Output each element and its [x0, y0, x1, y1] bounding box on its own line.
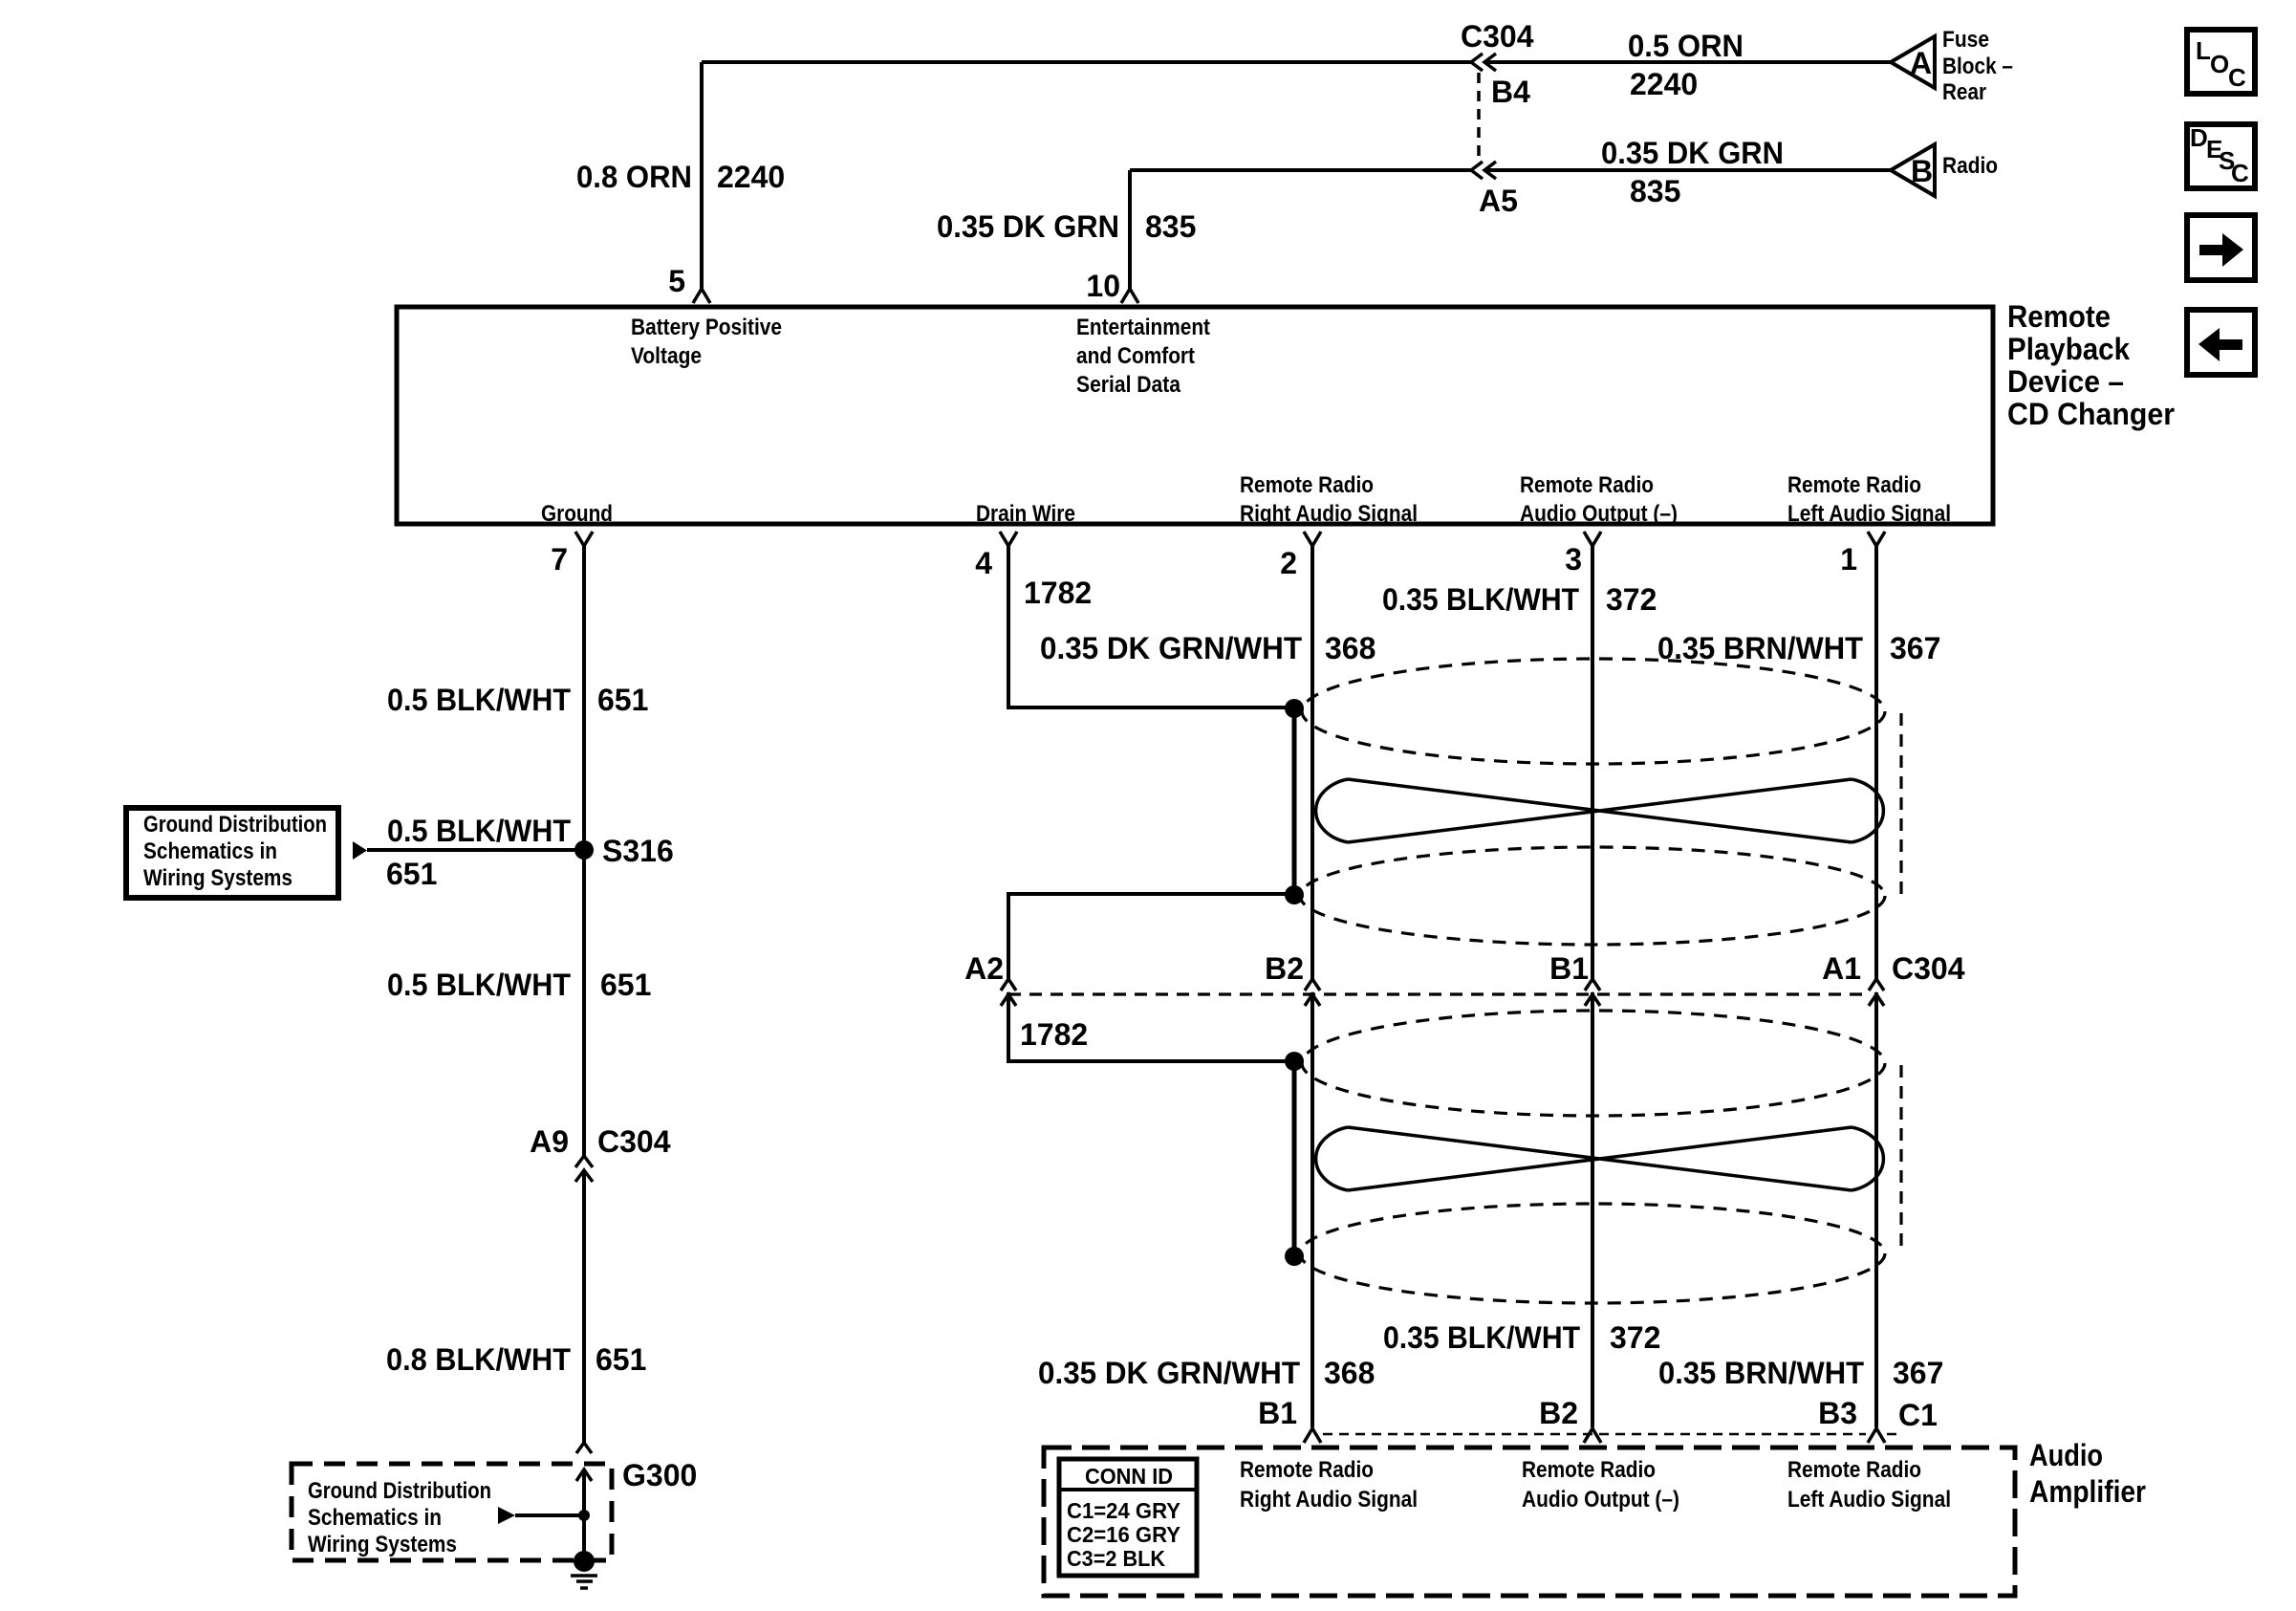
- shield 2 top dashed ellipse: [1302, 1011, 1885, 1116]
- svg-text:L: L: [2196, 36, 2211, 65]
- connector C304 cavity A9 chevrons: [575, 1156, 593, 1182]
- amp pin B2 fork: [1584, 1428, 1601, 1443]
- svg-text:C304: C304: [1461, 19, 1534, 54]
- wire 0.35 DK GRN 835 horizontal to radio: [1130, 168, 1471, 172]
- svg-text:Entertainment: Entertainment: [1076, 315, 1210, 340]
- pin 4 fork out of box: [1000, 532, 1017, 546]
- svg-text:C2=16 GRY: C2=16 GRY: [1067, 1522, 1180, 1547]
- svg-text:0.35 BLK/WHT: 0.35 BLK/WHT: [1383, 1320, 1580, 1355]
- svg-text:10: 10: [1086, 269, 1120, 303]
- svg-text:Drain Wire: Drain Wire: [976, 501, 1075, 527]
- SECTION: top wiring: [576, 19, 2013, 303]
- connector C304 dashed boundary line (top): [1477, 73, 1481, 162]
- svg-text:Block –: Block –: [1942, 54, 2013, 79]
- arrow inside G300 box: [498, 1507, 515, 1524]
- svg-text:C304: C304: [597, 1124, 671, 1159]
- reference box Ground Distribution Schematics (solid): [126, 808, 338, 898]
- svg-text:B3: B3: [1818, 1396, 1857, 1430]
- SECTION: ground branch: [126, 546, 697, 1588]
- svg-text:0.5 BLK/WHT: 0.5 BLK/WHT: [387, 683, 571, 717]
- SECTION: cd changer box: [397, 299, 2175, 580]
- svg-text:Rear: Rear: [1942, 79, 1986, 105]
- svg-text:C: C: [2231, 159, 2249, 187]
- splice S316 junction dot: [574, 840, 594, 860]
- legend box DESC: [2187, 124, 2255, 188]
- legend icon left-arrow: [2199, 328, 2242, 361]
- triangle connector B (radio): [1891, 144, 1935, 196]
- svg-text:0.35 DK GRN: 0.35 DK GRN: [1601, 136, 1784, 170]
- wire branch to S316: [367, 848, 584, 852]
- wire 0.35 DK GRN from connector to radio triangle: [1484, 168, 1891, 172]
- svg-text:Amplifier: Amplifier: [2029, 1474, 2146, 1509]
- svg-text:1782: 1782: [1020, 1017, 1088, 1052]
- wire 0.35 DK GRN 835 vertical drop to pin 10: [1128, 170, 1132, 289]
- svg-text:0.5 BLK/WHT: 0.5 BLK/WHT: [387, 814, 571, 848]
- svg-text:Playback: Playback: [2007, 332, 2130, 366]
- wire 372 audio output upper segment (pin 3): [1591, 546, 1594, 979]
- svg-text:0.35 DK GRN: 0.35 DK GRN: [937, 209, 1119, 244]
- wire 368 right audio upper segment (pin 2): [1310, 546, 1314, 979]
- svg-text:O: O: [2210, 50, 2229, 78]
- svg-text:A2: A2: [964, 951, 1004, 986]
- svg-text:0.35 DK GRN/WHT: 0.35 DK GRN/WHT: [1040, 631, 1302, 665]
- wire ground lower segment to G300: [582, 1170, 586, 1443]
- svg-text:Schematics in: Schematics in: [308, 1505, 442, 1531]
- shield 2 twisted pair bowtie: [1316, 1127, 1884, 1190]
- junction dot on ground stem: [578, 1510, 590, 1521]
- pin 10 fork into box: [1121, 289, 1138, 303]
- svg-text:1: 1: [1840, 542, 1857, 577]
- drain wire pin 4 vertical: [1008, 546, 1294, 708]
- triangle connector A (fuse block): [1891, 36, 1935, 88]
- svg-text:S316: S316: [602, 834, 674, 868]
- svg-text:Ground Distribution: Ground Distribution: [143, 812, 327, 838]
- wire 367 left audio upper segment (pin 1): [1874, 546, 1878, 979]
- svg-text:Wiring Systems: Wiring Systems: [143, 865, 292, 891]
- wire inside G300: [582, 1469, 586, 1558]
- svg-text:3: 3: [1565, 542, 1582, 577]
- G300 box (dashed): [292, 1464, 612, 1560]
- shield 1 top dashed ellipse: [1302, 659, 1885, 764]
- svg-text:835: 835: [1145, 209, 1196, 244]
- drain wire below A2: [1008, 992, 1294, 1061]
- svg-text:651: 651: [600, 968, 651, 1002]
- shield 1 drain dot lower: [1285, 885, 1304, 904]
- connector C304 cavity A5 chevrons: [1471, 162, 1496, 179]
- pin 7 fork out of box: [575, 532, 593, 546]
- connector A2 chevrons: [1001, 979, 1016, 1006]
- svg-text:G300: G300: [622, 1458, 697, 1492]
- arrow from reference box: [353, 841, 367, 860]
- svg-text:7: 7: [551, 542, 568, 577]
- svg-text:Left Audio Signal: Left Audio Signal: [1787, 1487, 1951, 1513]
- svg-text:368: 368: [1325, 631, 1375, 665]
- shield 2 drain bridge: [1292, 1061, 1297, 1256]
- svg-text:372: 372: [1610, 1320, 1660, 1355]
- svg-text:0.5 BLK/WHT: 0.5 BLK/WHT: [387, 968, 571, 1002]
- svg-text:5: 5: [668, 264, 685, 298]
- drain wire return to A2: [1008, 894, 1294, 979]
- ground terminal dot G300: [574, 1551, 595, 1572]
- pin 2 fork out of box: [1304, 532, 1321, 546]
- earth ground symbol: [571, 1576, 597, 1588]
- svg-text:CONN ID: CONN ID: [1085, 1464, 1173, 1489]
- svg-text:0.8 ORN: 0.8 ORN: [576, 160, 692, 194]
- connector C304 cavity B4 chevrons: [1471, 54, 1496, 71]
- svg-text:A: A: [1910, 46, 1932, 80]
- svg-text:B2: B2: [1265, 951, 1304, 986]
- svg-text:A9: A9: [530, 1124, 569, 1159]
- svg-text:Right Audio Signal: Right Audio Signal: [1240, 501, 1418, 527]
- svg-text:C304: C304: [1892, 951, 1965, 986]
- svg-text:367: 367: [1890, 631, 1940, 665]
- svg-text:Remote Radio: Remote Radio: [1522, 1457, 1656, 1483]
- shield 2 drain dot lower: [1285, 1247, 1304, 1266]
- wire 0.8 ORN 2240 horizontal from pin 5 to connector C304 B4: [702, 60, 1471, 64]
- shield 2 right dashed side: [1899, 1065, 1902, 1251]
- svg-text:2240: 2240: [717, 160, 785, 194]
- svg-text:0.35 BRN/WHT: 0.35 BRN/WHT: [1658, 1356, 1864, 1390]
- svg-text:Schematics in: Schematics in: [143, 838, 277, 864]
- svg-text:0.35 BRN/WHT: 0.35 BRN/WHT: [1657, 631, 1863, 665]
- svg-text:2240: 2240: [1630, 67, 1698, 101]
- connector B1 chevrons: [1585, 979, 1600, 1006]
- legend icon right-arrow: [2199, 233, 2243, 267]
- svg-text:Left Audio Signal: Left Audio Signal: [1787, 501, 1951, 527]
- shield 1 bottom dashed ellipse: [1300, 847, 1885, 945]
- svg-text:Remote Radio: Remote Radio: [1240, 1457, 1374, 1483]
- svg-text:C3=2 BLK: C3=2 BLK: [1067, 1546, 1165, 1571]
- svg-text:Remote: Remote: [2007, 299, 2111, 334]
- svg-text:Remote Radio: Remote Radio: [1787, 1457, 1921, 1483]
- wire 0.5 ORN 2240 from connector C304 to fuse block triangle: [1484, 60, 1891, 64]
- G300 break chevron above box: [576, 1443, 592, 1453]
- svg-text:Ground: Ground: [541, 501, 613, 527]
- svg-text:Ground Distribution: Ground Distribution: [308, 1478, 491, 1504]
- wire ground upper segment pin7 to S316: [582, 546, 586, 1156]
- svg-text:C1: C1: [1898, 1398, 1938, 1432]
- connector A1 chevrons: [1869, 979, 1884, 1006]
- svg-text:Radio: Radio: [1942, 153, 1998, 179]
- svg-text:B1: B1: [1258, 1396, 1297, 1430]
- svg-text:1782: 1782: [1024, 576, 1092, 610]
- svg-text:Audio Output (–): Audio Output (–): [1520, 501, 1678, 527]
- svg-text:0.8 BLK/WHT: 0.8 BLK/WHT: [386, 1342, 571, 1377]
- shield 1 drain dot upper: [1285, 699, 1304, 718]
- shield 1 right dashed side: [1899, 713, 1902, 894]
- legend box left-arrow: [2187, 310, 2255, 375]
- wire arrow to ground stem: [515, 1513, 584, 1517]
- svg-text:Wiring Systems: Wiring Systems: [308, 1532, 457, 1557]
- svg-text:Battery Positive: Battery Positive: [631, 315, 782, 340]
- SECTION: shields: [964, 546, 1965, 1427]
- shield 1 drain bridge: [1292, 708, 1297, 895]
- svg-text:Fuse: Fuse: [1942, 27, 1989, 53]
- wire 0.8 ORN 2240 vertical drop to pin 5: [700, 62, 704, 289]
- svg-text:CD Changer: CD Changer: [2007, 397, 2175, 431]
- svg-text:Device –: Device –: [2007, 364, 2124, 399]
- svg-text:0.35 BLK/WHT: 0.35 BLK/WHT: [1382, 582, 1579, 617]
- amp pin B3 fork: [1868, 1428, 1885, 1443]
- svg-text:Remote Radio: Remote Radio: [1520, 472, 1654, 498]
- svg-text:4: 4: [975, 546, 992, 580]
- svg-text:C: C: [2228, 63, 2246, 92]
- G300 entry arrow chevron: [576, 1469, 592, 1481]
- svg-text:and Comfort: and Comfort: [1076, 343, 1195, 369]
- wire 372 audio output lower segment to amp B2: [1591, 992, 1594, 1427]
- shield 1 twisted pair bowtie: [1316, 779, 1884, 842]
- svg-text:651: 651: [386, 857, 437, 891]
- svg-text:A5: A5: [1479, 184, 1518, 218]
- amp connector C1 thin dashed line: [1323, 1433, 1897, 1436]
- CONN ID table header separator: [1059, 1488, 1197, 1491]
- svg-text:367: 367: [1893, 1356, 1943, 1390]
- connector B2 chevrons: [1305, 979, 1320, 1006]
- svg-text:Voltage: Voltage: [631, 343, 702, 369]
- SECTION: top-right legend icons: [2187, 30, 2255, 375]
- svg-text:2: 2: [1280, 546, 1297, 580]
- svg-text:B: B: [1911, 154, 1933, 188]
- svg-text:Audio: Audio: [2029, 1438, 2103, 1472]
- svg-text:Audio Output (–): Audio Output (–): [1522, 1487, 1679, 1513]
- shield 2 bottom dashed ellipse: [1300, 1204, 1885, 1303]
- svg-text:368: 368: [1324, 1356, 1375, 1390]
- pin 3 fork out of box: [1584, 532, 1601, 546]
- svg-text:835: 835: [1630, 174, 1680, 208]
- svg-text:651: 651: [597, 683, 648, 717]
- amp pin B1 fork: [1304, 1428, 1321, 1443]
- SECTION: amplifier: [1044, 1396, 2146, 1596]
- svg-text:B4: B4: [1491, 75, 1530, 109]
- svg-text:Remote Radio: Remote Radio: [1787, 472, 1921, 498]
- svg-text:0.5 ORN: 0.5 ORN: [1628, 29, 1744, 63]
- legend box LOC: [2187, 30, 2255, 94]
- svg-text:Remote Radio: Remote Radio: [1240, 472, 1374, 498]
- svg-text:Serial Data: Serial Data: [1076, 372, 1181, 398]
- connector C304 row dashed line: [1008, 992, 1864, 995]
- legend box right-arrow: [2187, 215, 2255, 280]
- svg-text:B1: B1: [1549, 951, 1589, 986]
- pin 5 fork into box: [693, 289, 710, 303]
- pin 1 fork out of box: [1868, 532, 1885, 546]
- svg-text:A1: A1: [1822, 951, 1861, 986]
- CD changer device box: [397, 307, 1993, 524]
- wire 368 right audio lower segment to amp B1: [1310, 992, 1314, 1427]
- svg-text:0.35 DK GRN/WHT: 0.35 DK GRN/WHT: [1038, 1356, 1300, 1390]
- wire 367 left audio lower segment to amp B3: [1874, 992, 1878, 1427]
- svg-text:D: D: [2190, 123, 2208, 152]
- shield 2 drain dot upper: [1285, 1052, 1304, 1071]
- svg-text:C1=24 GRY: C1=24 GRY: [1067, 1498, 1180, 1523]
- CONN ID table outer box: [1059, 1459, 1197, 1576]
- svg-text:Right Audio Signal: Right Audio Signal: [1240, 1487, 1418, 1513]
- svg-text:B2: B2: [1539, 1396, 1578, 1430]
- audio amplifier box (dashed): [1044, 1448, 2015, 1596]
- svg-text:372: 372: [1606, 582, 1657, 617]
- svg-text:651: 651: [596, 1342, 646, 1377]
